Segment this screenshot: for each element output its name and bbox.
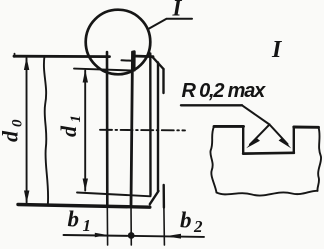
b2 extension xyxy=(163,208,166,246)
arrowhead left fillet xyxy=(246,138,260,149)
arrowhead right fillet xyxy=(279,137,292,148)
label d1 xyxy=(56,115,84,137)
detail right block inner wall xyxy=(293,127,295,153)
top surface right segment xyxy=(133,55,153,58)
label d0 xyxy=(0,119,26,142)
svg-text:d1: d1 xyxy=(56,115,84,137)
ledge line right of ball xyxy=(122,59,134,62)
ball (sphere) xyxy=(86,10,151,75)
hole left wall xyxy=(106,52,109,206)
detail bottom wavy edge xyxy=(217,191,318,196)
arrow b1 (points right at left hole wall) xyxy=(95,233,108,238)
svg-text:d0: d0 xyxy=(0,119,26,142)
svg-text:R 0,2 max: R 0,2 max xyxy=(182,80,267,102)
bottom-right chamfer xyxy=(150,191,159,204)
svg-text:I: I xyxy=(271,37,283,63)
leader arm left xyxy=(250,125,270,145)
b1 extension right xyxy=(130,206,132,246)
hole right wall xyxy=(131,52,133,206)
arrow d0 up xyxy=(24,57,29,70)
bottom surface xyxy=(18,205,150,208)
svg-text:b2: b2 xyxy=(180,208,203,237)
centerline (dash-dot axis) xyxy=(100,129,185,132)
arrow b2 (points left at end face) xyxy=(165,234,181,239)
detail left wavy edge xyxy=(210,126,216,192)
inner vertical A xyxy=(149,54,152,196)
junction dot b1/b2 xyxy=(128,232,135,239)
note leader diagonal xyxy=(242,105,270,124)
leader line to detail label xyxy=(148,19,192,30)
bottom dimension line b1/b2 xyxy=(64,235,205,237)
detail right block top edge xyxy=(294,126,319,129)
top surface left end tick xyxy=(14,54,16,57)
end face top segment xyxy=(162,69,164,93)
arrow d1 down xyxy=(83,179,88,192)
d1 bottom line xyxy=(77,193,151,197)
arrow d0 down xyxy=(24,191,29,204)
wavy break line xyxy=(44,56,48,205)
arrow d1 up xyxy=(83,70,88,83)
top surface left segment xyxy=(14,55,110,58)
dimension line d1 xyxy=(84,71,86,191)
detail left block inner wall xyxy=(242,126,244,153)
hole right wall upper stub xyxy=(133,52,136,70)
detail left block top edge xyxy=(214,125,244,128)
b1 extension left xyxy=(106,206,108,246)
svg-text:b1: b1 xyxy=(68,207,92,236)
ball seat line / d1 top extension xyxy=(74,69,135,71)
svg-text:I: I xyxy=(172,0,183,21)
note underline xyxy=(181,104,242,106)
inner vertical B xyxy=(157,63,159,192)
detail groove bottom xyxy=(243,151,294,155)
detail right wavy edge xyxy=(317,127,321,191)
top-right chamfer xyxy=(153,57,164,69)
leader arm right xyxy=(270,125,288,145)
dimension line d0 xyxy=(26,58,28,203)
end face bottom segment xyxy=(162,185,165,208)
